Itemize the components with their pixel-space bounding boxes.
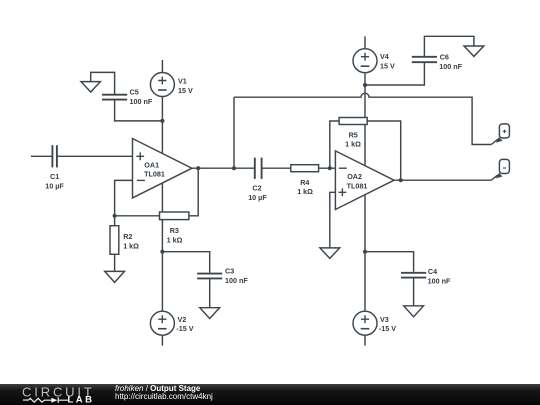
op-amp OA2	[335, 151, 394, 210]
wire V- row to C3	[162, 252, 209, 273]
voltage source V1	[150, 60, 174, 97]
voltage source V3	[353, 311, 377, 346]
ground (top-left, C5)	[81, 72, 115, 94]
connector J1 (+)	[491, 124, 509, 145]
svg-text:-15 V: -15 V	[379, 324, 396, 333]
svg-text:C5: C5	[130, 88, 139, 97]
capacitor C1	[52, 145, 57, 167]
wire OA1 - input	[115, 180, 133, 215]
ground (OA2 +)	[320, 248, 340, 259]
svg-text:1 kΩ: 1 kΩ	[167, 235, 183, 244]
svg-text:C1: C1	[50, 172, 59, 181]
wire V1 bottom to OA1 V+	[161, 97, 163, 154]
node V4 junction	[363, 83, 367, 87]
footer bar	[0, 384, 540, 405]
svg-text:R5: R5	[349, 130, 358, 139]
wire up from C2 node	[233, 97, 235, 168]
svg-text:V1: V1	[178, 77, 187, 86]
node OA1 output	[196, 166, 200, 170]
node OA2 V- junction	[363, 250, 367, 254]
wire input	[31, 155, 53, 157]
node OA2 inverting input	[328, 166, 332, 170]
wire C1 to OA1 + input	[57, 155, 133, 157]
wire V4 to C6	[365, 62, 424, 85]
capacitor C3	[197, 274, 222, 279]
wire OA1 output	[192, 167, 234, 169]
svg-text:V4: V4	[380, 52, 389, 61]
svg-text:1 kΩ: 1 kΩ	[297, 187, 313, 196]
svg-text:R3: R3	[170, 226, 179, 235]
svg-text:TL081: TL081	[144, 169, 165, 178]
svg-text:100 nF: 100 nF	[439, 62, 462, 71]
svg-text:100 nF: 100 nF	[130, 97, 153, 106]
wire C3 to ground	[209, 278, 211, 307]
footer credit text	[115, 385, 213, 401]
node OA1 V- junction	[160, 250, 164, 254]
wire feedback up to R5	[330, 121, 339, 168]
CircuitLab logo	[0, 384, 110, 405]
wire R4 to OA2	[319, 167, 336, 169]
wire OA2 output	[394, 179, 491, 181]
op-amp OA1	[133, 139, 192, 198]
svg-text:100 nF: 100 nF	[225, 276, 248, 285]
svg-text:1 kΩ: 1 kΩ	[123, 242, 139, 251]
connector J2 (-)	[491, 159, 509, 180]
wire long top rail with hop	[234, 93, 491, 144]
node C2 junction	[232, 166, 236, 170]
wire to C2	[234, 167, 255, 169]
svg-text:-15 V: -15 V	[176, 324, 193, 333]
wire C6 to ground	[424, 36, 474, 57]
wire node row	[115, 215, 160, 217]
capacitor C6	[412, 57, 437, 62]
svg-text:R2: R2	[123, 232, 132, 241]
svg-text:C6: C6	[440, 53, 449, 62]
wire R5 to output	[367, 121, 401, 180]
wire C4 to ground	[413, 278, 415, 306]
capacitor C4	[401, 273, 426, 278]
svg-text:100 nF: 100 nF	[428, 276, 451, 285]
voltage source V2	[150, 311, 174, 346]
svg-text:LAB: LAB	[68, 395, 95, 405]
svg-text:C4: C4	[428, 267, 437, 276]
voltage source V4	[353, 36, 377, 72]
capacitor C2	[255, 158, 262, 179]
node OA2 output	[399, 178, 403, 182]
ground (C4)	[404, 306, 424, 317]
wire R2 bottom	[114, 254, 116, 271]
wire C2 to R4	[262, 167, 291, 169]
svg-text:V3: V3	[380, 315, 389, 324]
node junction V1/C5	[160, 119, 164, 123]
wire OA1 V- down to V2	[161, 183, 163, 311]
svg-text:V2: V2	[178, 315, 187, 324]
capacitor C5	[102, 95, 127, 100]
node inverting input junction	[113, 214, 117, 218]
wire V4 down to OA2 V+	[364, 73, 366, 165]
wire OA2 V- down	[364, 195, 366, 311]
wire OA2 + input to ground	[330, 192, 336, 248]
wire feedback down	[189, 168, 198, 216]
svg-text:R4: R4	[300, 178, 309, 187]
ground (C3)	[200, 308, 220, 319]
ground (C6)	[464, 46, 484, 56]
resistor R2	[110, 226, 119, 255]
resistor R5	[339, 118, 367, 125]
svg-text:15 V: 15 V	[178, 86, 193, 95]
svg-text:1 kΩ: 1 kΩ	[345, 140, 361, 149]
svg-text:OA1: OA1	[144, 160, 159, 169]
resistor R4	[291, 165, 319, 172]
resistor R3	[160, 212, 189, 220]
svg-text:15 V: 15 V	[380, 61, 395, 70]
svg-text:OA2: OA2	[347, 172, 362, 181]
wire C5 bottom to node	[115, 100, 163, 121]
wire R2 top	[114, 216, 116, 226]
wire V- row to C4	[365, 252, 414, 272]
svg-text:10 µF: 10 µF	[45, 182, 64, 191]
svg-text:C3: C3	[225, 267, 234, 276]
svg-text:TL081: TL081	[347, 181, 368, 190]
svg-text:C2: C2	[252, 183, 261, 192]
svg-text:10 µF: 10 µF	[248, 193, 267, 202]
ground (R2)	[105, 271, 125, 282]
